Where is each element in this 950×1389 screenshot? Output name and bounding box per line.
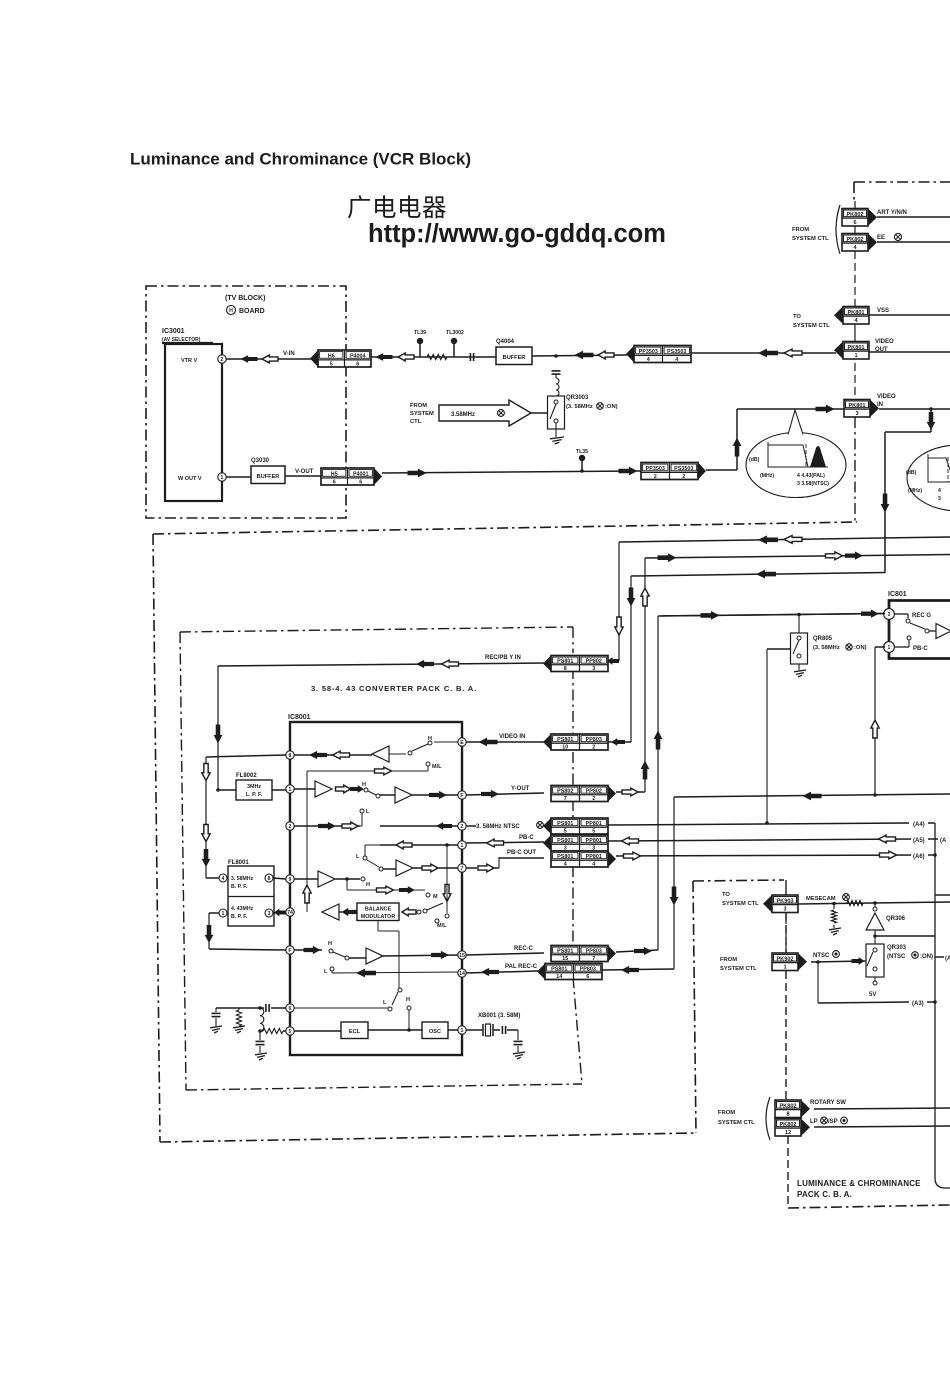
svg-text:15: 15 [459,953,465,959]
svg-text:PK802: PK802 [779,1122,796,1128]
svg-text:LUMINANCE & CHROMINANCE: LUMINANCE & CHROMINANCE [797,1179,921,1188]
svg-text:PP802: PP802 [586,789,602,795]
svg-text:(A3): (A3) [912,1001,924,1007]
junction mesecam 1 [832,902,836,906]
svg-text:MESECAM: MESECAM [806,896,836,902]
svg-text:(dB): (dB) [749,457,760,463]
svg-text:7: 7 [564,796,567,802]
wire recpb right [608,660,619,662]
svg-text:Q3030: Q3030 [251,458,270,464]
IC int row1 harrow [375,767,392,775]
wire WOUT to Q3030 [226,476,251,478]
svg-text:ROTARY SW: ROTARY SW [810,1100,846,1106]
IC801 amp [936,624,950,639]
svg-text:6: 6 [586,974,589,980]
svg-text:http://www.go-gddq.com: http://www.go-gddq.com [368,220,666,248]
svg-text:6: 6 [359,479,362,485]
balloon2 curve [928,458,950,470]
svg-text:1: 1 [854,353,857,359]
arrow V-IN solid [241,355,258,363]
wire recc right [616,950,658,952]
svg-text:(3. 58MHz: (3. 58MHz [813,645,840,651]
svg-text:PP802: PP802 [586,659,602,665]
wire QR805 left branch [767,648,791,650]
arrow pbc hollow2 [622,837,639,845]
arrow pbc up [871,720,879,738]
FL8001 pin3 [265,909,273,917]
IC int bal amp [322,904,339,920]
arrow down v2b [202,825,210,842]
connector PS801-PP803c [545,964,602,980]
svg-text:VIDEO IN: VIDEO IN [499,734,525,740]
arrow recg right [861,610,879,618]
svg-text:12: 12 [785,1130,791,1136]
IC int row4b H contact [426,893,430,897]
svg-text:1: 1 [461,843,464,849]
converter pack border bottom [186,1084,582,1090]
svg-text:BUFFER: BUFFER [503,355,526,361]
svg-text:2: 2 [221,357,224,363]
label 3.58MHz NTSC [466,825,476,827]
junction mesecam 2 [873,901,877,905]
junction recg [797,613,801,617]
svg-text:PP803: PP803 [586,949,602,955]
wire PP3503-2 to corner [706,469,737,471]
IC int row4 corner [365,844,380,846]
svg-text:PK801: PK801 [847,310,864,316]
wire yout right [616,791,645,793]
IC int feedback vertical [306,771,308,912]
IC int row1 wire [294,754,372,756]
bracket top connectors [836,205,840,254]
top right board dash-dot border [854,181,950,183]
svg-text:PS3503: PS3503 [674,466,693,472]
wire sysctl to QR3003 [531,412,547,414]
svg-text:PP803: PP803 [580,967,596,973]
wire P4001 to PP3503-2 [382,471,641,473]
svg-text:PS801: PS801 [557,854,573,860]
arrow down v2a [202,764,210,781]
svg-text:H: H [428,736,432,742]
wire PAL REC-C [466,971,538,973]
svg-text:H6: H6 [328,353,335,359]
connector PK801-3 [844,400,870,418]
arrow yout solid [481,790,499,798]
svg-text:VTR V: VTR V [181,358,198,364]
arrow video-in branch down [881,494,890,513]
IC801 pin3 [884,609,895,620]
wire FL8001-8 to IC [273,878,286,879]
arrow wire2 hollow2 [826,552,843,560]
svg-text:B. P. F.: B. P. F. [231,884,248,890]
svg-text:REC-C: REC-C [514,946,534,952]
converter pack border left [180,632,186,1090]
svg-text:1: 1 [222,911,225,917]
wire corner to PK801-3 [737,408,844,410]
svg-text:BOARD: BOARD [239,308,265,315]
IC8001 pin L7 [286,1004,294,1012]
svg-text:IN: IN [877,402,883,408]
IC8001 pin R8 [458,1026,466,1034]
wire QR306 down [874,930,876,944]
svg-text:SYSTEM: SYSTEM [410,411,434,417]
svg-text:PS801: PS801 [557,659,573,665]
svg-text:SYSTEM CTL: SYSTEM CTL [722,901,759,907]
svg-text:TO: TO [722,892,730,898]
IC int row2 amp1 [294,788,315,790]
junction FL8002 [216,788,220,792]
IC int row4b arrows [377,886,394,894]
arrow pbc hollow3 [879,835,896,843]
connector PS801-PP801a [551,818,608,834]
svg-text:3: 3 [592,666,595,672]
wire VSS [869,314,950,316]
resistor mesecam series [847,900,863,905]
svg-text:4: 4 [675,357,678,363]
IC8001 pin L5 [286,908,294,916]
IC int row7 arrowin [294,949,322,951]
wire P4004 to TL3002 [371,356,496,358]
svg-text:P4004: P4004 [350,353,366,359]
wire FL8002 out [272,789,286,791]
svg-text:7: 7 [461,866,464,872]
junction coil top [258,1006,262,1010]
arrow pbc hollow [487,839,504,847]
svg-text:3: 3 [783,907,786,913]
IC int row4 ML [446,880,448,913]
svg-text:M/L: M/L [432,764,442,770]
svg-text:SYSTEM CTL: SYSTEM CTL [792,236,829,242]
svg-text:1: 1 [888,645,891,651]
svg-text:8: 8 [564,666,567,672]
IC int pin L7 wire [294,1007,388,1009]
arrow VIDEO OUT solid [758,349,778,358]
FL8001 pin8 [265,874,273,882]
IC8001 pin R4 [458,841,466,849]
svg-text:74: 74 [287,910,293,916]
ground QR3003 [550,437,564,439]
IC int row3 L contact [360,825,362,827]
svg-text:ECL: ECL [349,1029,361,1035]
svg-text:XB001 (3. 58M): XB001 (3. 58M) [478,1013,520,1019]
wire FL8001-1 loop [209,912,219,914]
wire3 videoin vertical [630,576,632,742]
svg-text:PK802: PK802 [779,1104,796,1110]
svg-text:FL8001: FL8001 [228,860,249,866]
svg-text:VIDEO: VIDEO [875,339,894,345]
wire OSC out [448,1029,458,1031]
svg-text:PACK C. B. A.: PACK C. B. A. [797,1190,852,1199]
switch QR303 [866,944,884,977]
cap to gnd 1 [215,1008,217,1012]
IC int row3 arrows [318,822,336,830]
wire FL8001-3 to IC [273,912,286,913]
svg-text:PS3503: PS3503 [667,349,686,355]
svg-text:PK802: PK802 [846,237,863,243]
svg-text::ON): :ON) [854,645,867,651]
svg-text:4: 4 [222,876,225,882]
wire VIDEO OUT right [869,351,950,353]
FL8001 box [228,866,274,926]
IC801 box [889,601,950,659]
IC int row7 amp [349,957,366,959]
wire NTSC [811,961,866,962]
lum pack border bottom [788,1205,950,1208]
svg-text:3. 58MHz NTSC: 3. 58MHz NTSC [476,824,520,830]
IC int row1 switch [389,753,406,755]
svg-text:4: 4 [647,357,650,363]
capacitor series [469,353,471,361]
svg-text:6: 6 [289,1006,292,1012]
connector PS801-PP801c [551,851,608,867]
wire rotary [814,1108,950,1109]
converter pack border top [180,627,573,632]
svg-text:/SP: /SP [828,1119,838,1125]
svg-text:PK902: PK902 [776,957,793,963]
arrow palrecc left [803,792,822,801]
svg-text:Luminance and Chrominance (VCR: Luminance and Chrominance (VCR Block) [130,150,471,169]
svg-text:4 4.43(PAL): 4 4.43(PAL) [797,473,825,479]
arrow palrecc down [670,887,679,906]
connector PK902-1 [772,953,798,971]
connector PK903-3 [772,895,798,913]
svg-text:15: 15 [562,956,568,962]
svg-text:SYSTEM CTL: SYSTEM CTL [718,1120,755,1126]
converter pack border right [572,627,574,653]
switch QR805 [791,633,808,664]
IC int bal arrow [342,908,357,916]
svg-text:1: 1 [461,1028,464,1034]
svg-text:TO: TO [793,314,801,320]
wire lpsp [814,1126,950,1127]
arrow recc right2 [701,611,720,620]
IC801 pin1 [884,642,895,653]
svg-text:(MHz): (MHz) [760,473,774,479]
wire pin R8 to crystal [466,1029,483,1031]
bus stub y957 [935,956,944,958]
arrow solid left2 [575,351,594,360]
wire pin L1 to corner [206,755,286,757]
IC int row1 amp [372,746,389,762]
FL8001 pin1 [219,909,227,917]
TV block dash-dot border [146,286,346,518]
wire recc vertical [657,616,659,950]
arrow recpb solid [416,660,434,668]
balance modulator box [357,903,399,921]
svg-text:H: H [328,941,332,947]
IC int row4 junction [445,843,449,847]
test point TL35 [581,461,583,471]
svg-text:V-OUT: V-OUT [295,469,314,475]
arrow V-OUT solid [408,469,427,478]
connector PK802-6 [842,209,868,227]
svg-text:3: 3 [855,411,858,417]
svg-text:2: 2 [289,824,292,830]
svg-text:3: 3 [938,496,941,502]
svg-text:IC8001: IC8001 [288,714,311,721]
svg-text:PK801: PK801 [848,403,865,409]
svg-text:8: 8 [786,1112,789,1118]
wire EE [877,241,950,243]
arrow wire2 solid2 [845,551,863,559]
IC int row4 harrow down [443,885,451,902]
junction video in [929,407,933,411]
arrow into PK801-3 [816,405,835,414]
wire A3 [817,962,819,1003]
resistor R on V-IN [427,354,447,359]
arrow wire2 solid [658,553,677,562]
VCR pack border left [153,534,160,1142]
IC int row8 arrow [356,969,376,978]
arrow pbcout hollow2 [880,851,897,859]
arrow recc up [654,731,663,750]
svg-text:PB-C OUT: PB-C OUT [507,850,536,856]
freq response balloon 1 [746,433,846,498]
svg-text:TL35: TL35 [576,449,588,455]
svg-text:4: 4 [564,861,567,867]
svg-text:NTSC: NTSC [813,953,830,959]
svg-text:5: 5 [330,361,333,367]
svg-text:OUT: OUT [875,347,888,353]
svg-text:SYSTEM CTL: SYSTEM CTL [793,323,830,329]
svg-text:3 3.58(NTSC): 3 3.58(NTSC) [797,481,829,487]
connector PK802-8 [775,1100,801,1118]
svg-text:2: 2 [682,474,685,480]
coil vert [260,1008,264,1031]
cap series crystal [501,1026,503,1034]
svg-text:FL8002: FL8002 [236,773,257,779]
IC8001 pin R2 [458,791,466,799]
cap series pin6 [265,1004,267,1012]
svg-text:(A5): (A5) [913,838,925,844]
svg-text:PP801: PP801 [586,821,602,827]
svg-text:PP801: PP801 [586,838,602,844]
OSC box [422,1022,448,1039]
FL8001 pin4 [219,874,227,882]
connector PK801-4 [843,307,869,325]
resistor mesecam gnd [833,904,835,910]
svg-text:PP3503: PP3503 [646,466,665,472]
IC int bal bottom wire [377,921,379,932]
svg-text:PS801: PS801 [557,949,573,955]
test point TL3002 [453,344,455,357]
IC8001 pin L3 [286,822,294,830]
svg-text:14: 14 [556,974,562,980]
svg-text:1: 1 [783,965,786,971]
svg-text:F: F [288,948,291,954]
svg-text:E: E [460,740,464,746]
svg-text:4: 4 [938,488,941,494]
test point TL39 [419,344,421,357]
wire pbcout right [616,855,911,856]
svg-text:ART Y/N/N: ART Y/N/N [877,210,907,216]
IC int row4 wire [380,844,458,846]
connector P4001 [321,468,374,485]
svg-text:PS802: PS802 [557,789,573,795]
connector PS801-PP801b [551,835,608,851]
wire recg to QR805 [798,615,800,634]
junction ntsc [816,960,820,964]
svg-text:(TV BLOCK): (TV BLOCK) [225,295,265,302]
balloon1 axes [768,442,828,467]
IC int row1 arrows [309,751,327,759]
svg-text:TL39: TL39 [414,330,426,336]
wire2 yout vertical [644,558,646,792]
svg-text:QR805: QR805 [813,636,833,642]
svg-text:QR303: QR303 [887,945,907,951]
wire A3 to bus [927,1001,935,1003]
IC int row4 lever [367,860,379,867]
wire rec/pb to FL8002 [217,666,219,790]
arrow hollow left [398,353,414,361]
balloon2 axes [928,454,950,482]
wire Q3030 to P4001 [285,475,321,477]
svg-text:5: 5 [289,1029,292,1035]
arrow V-IN hollow [262,355,278,363]
svg-text:BALANCE: BALANCE [365,907,392,913]
svg-text:8: 8 [289,753,292,759]
svg-text:2: 2 [592,744,595,750]
svg-text:PP3503: PP3503 [639,349,658,355]
svg-text:VIDEO: VIDEO [877,394,896,400]
IC801 rec switch [894,613,908,615]
IC int row3 right wire [380,825,458,827]
svg-text:H: H [406,997,410,1003]
wire node 1031 [260,1030,263,1032]
svg-text:3: 3 [268,911,271,917]
wire videoin right [608,741,631,743]
IC int bal contacts [417,910,421,914]
connector PS801-PP803b [551,946,608,962]
svg-text:(A: (A [945,956,950,962]
svg-text:6: 6 [333,479,336,485]
svg-text:5V: 5V [869,992,876,998]
svg-text::ON): :ON) [605,404,618,410]
wire ART [877,216,950,218]
svg-text:PS801: PS801 [551,967,567,973]
wire Y-OUT [466,793,544,795]
connector PS802-PP802 [551,786,608,802]
wire ECL-OSC [368,1029,422,1031]
wire palrecc vertical [673,797,675,969]
IC8001 pin R1 [458,738,466,746]
svg-text:2: 2 [654,474,657,480]
arrow hollow left2 [598,351,614,359]
svg-text:6: 6 [356,361,359,367]
svg-text:TL3002: TL3002 [446,330,464,336]
arrow VIDEO OUT hollow [784,349,802,357]
svg-text:Y-OUT: Y-OUT [511,786,530,792]
arrow wire1 hollow [784,536,802,544]
svg-text:EE: EE [877,235,885,241]
svg-text:PB-C: PB-C [913,646,928,652]
wire node 1008 [216,1007,264,1009]
board edge vertical [854,201,856,209]
wire REC G [662,614,885,616]
svg-text:Q4004: Q4004 [496,339,515,345]
svg-text:H: H [229,308,233,314]
wire REC-C [466,953,544,955]
svg-text:QR306: QR306 [886,916,906,922]
svg-text:3.58MHz: 3.58MHz [451,412,475,418]
svg-text:2: 2 [592,796,595,802]
connector PP3503-2 [641,463,698,480]
connector PS801-PP802 [551,656,608,672]
wire pin L7 ext [271,1007,286,1009]
IC8001 pin L6 [286,946,294,954]
svg-text:PS801: PS801 [557,737,573,743]
IC8001 pin L2 [286,785,294,793]
